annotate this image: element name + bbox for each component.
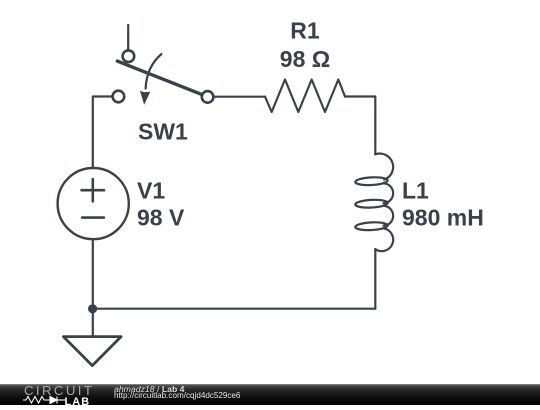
svg-text:V1: V1 bbox=[137, 178, 165, 204]
ground bbox=[63, 337, 121, 366]
wire V1 bottom to junction bbox=[92, 239, 94, 309]
wire resistor to top-right corner down to inductor bbox=[345, 97, 375, 155]
footer bar bbox=[0, 384, 540, 405]
resistor R1 bbox=[265, 80, 345, 113]
svg-text:980 mH: 980 mH bbox=[402, 205, 484, 231]
wire inductor bottom to bottom-right corner bbox=[374, 249, 376, 309]
CircuitLab logo bbox=[24, 386, 104, 396]
svg-text:98 V: 98 V bbox=[137, 204, 185, 230]
svg-text:R1: R1 bbox=[290, 18, 320, 44]
wire switch left terminal to left rail bbox=[93, 97, 112, 169]
wire junction to ground bbox=[92, 309, 94, 337]
svg-text:L1: L1 bbox=[402, 177, 429, 203]
voltage source V1 bbox=[58, 168, 129, 239]
logo squiggle: resistor and diode bbox=[22, 395, 102, 404]
svg-text:98 Ω: 98 Ω bbox=[280, 46, 330, 72]
switch SW1 bbox=[113, 50, 214, 104]
wire switch right terminal to resistor bbox=[214, 96, 265, 98]
wire bottom rail bbox=[93, 308, 376, 310]
credit text bbox=[113, 383, 115, 385]
junction node bbox=[88, 304, 97, 313]
inductor L1 bbox=[355, 154, 393, 252]
svg-text:SW1: SW1 bbox=[138, 118, 188, 144]
wire top stub to switch bbox=[127, 25, 129, 50]
